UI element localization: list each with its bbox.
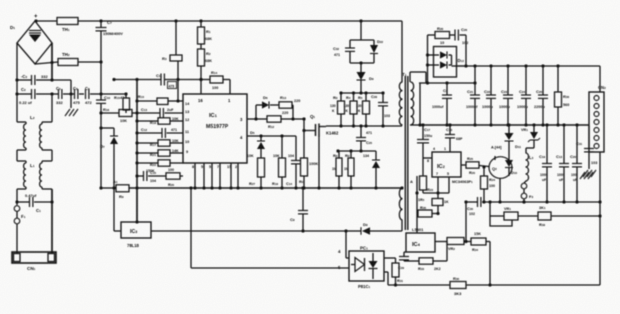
resistor R33 2K2 (404, 242, 447, 272)
diode D11 (505, 125, 522, 149)
wire secondary bottom lead (410, 124, 420, 126)
wire primary bus left (101, 187, 116, 189)
wire IC2 bottom row (415, 177, 449, 195)
capacitor C10 (96, 95, 111, 103)
resistor R22 150K (135, 160, 183, 173)
wire winding-bottom link (418, 81, 476, 126)
zener D4 (363, 151, 380, 190)
capacitor C7 150M/400V (96, 19, 124, 62)
wire D12 input column (426, 35, 429, 85)
wire feedback line (466, 200, 600, 203)
regulator IC2 MC34063 (423, 147, 473, 184)
optocoupler PC1 (349, 246, 384, 290)
dual diode D12 (428, 47, 467, 78)
wire primary bus (129, 186, 402, 189)
thermistor TH1 (57, 18, 78, 33)
fuse F1 (14, 206, 25, 224)
wire to PC1 pin4 (303, 229, 348, 232)
pin 1 (228, 98, 231, 103)
ground (C31) (583, 170, 596, 177)
pin 5 bottom (201, 165, 203, 169)
ground (secondary) (580, 172, 593, 179)
wire pin4 row (247, 134, 296, 137)
wire left rail to C1 row (15, 189, 18, 205)
wire R23 column (422, 158, 424, 176)
connector CN1 (12, 252, 56, 271)
wire bridge right rail (51, 43, 53, 80)
wire pin3 row (247, 117, 267, 120)
pot VR1 3K1 row (490, 202, 518, 226)
inductor L3 (526, 153, 534, 181)
capacitor C26 102 (450, 27, 469, 45)
pack A[44] label (491, 146, 502, 150)
resistor R24 100 (481, 165, 496, 203)
wire gate feeder (293, 117, 306, 158)
wire bottom bus right (466, 283, 600, 286)
thermistor TH2 (35, 52, 78, 66)
pin 13 (185, 110, 189, 114)
wire IC1 bottom pin stubs (193, 163, 239, 190)
resistor R19 10K (272, 136, 286, 190)
capacitor C23 1000u (499, 66, 513, 127)
resistor R5 130K (356, 93, 370, 128)
snubber loop C32 D22 (350, 19, 374, 64)
pin 15 bottom (227, 165, 231, 169)
pin 11 (185, 130, 189, 134)
zener D7 (99, 126, 118, 231)
capacitor C2 0.22uf (19, 87, 52, 105)
capacitor C22 1000u (482, 66, 496, 127)
wire PC1 right bottom (384, 272, 388, 285)
capacitor C5 332 (52, 86, 71, 105)
common-mode choke L2 (17, 80, 52, 150)
wire top bus (+ rail) (36, 20, 402, 22)
pin 3 (240, 117, 243, 122)
capacitor C12 471 (137, 128, 183, 138)
capacitor C3 332 (21, 74, 52, 85)
resistor R29 1K (418, 193, 449, 214)
diode D10 (505, 142, 517, 176)
capacitor C17 150u (417, 125, 432, 158)
resistor R12 220 (267, 111, 295, 129)
wire TH2 to C7 column (78, 60, 103, 63)
zener D5 (250, 130, 265, 158)
capacitor C14 104 (286, 136, 301, 190)
resistor R8b 1M (344, 151, 354, 190)
capacitor C1 0.47uf (17, 193, 52, 213)
resistor R38 3K1 (518, 206, 600, 227)
regulator IC3 78L18 (114, 188, 151, 248)
pot VR2 (435, 238, 464, 252)
capacitor C25b 2200u (534, 66, 548, 127)
wire second-row top rail (336, 149, 376, 152)
wire vertical feeder x137 (135, 78, 138, 222)
resistor R27 10K (247, 154, 265, 190)
transistor Q1 K1462 (302, 114, 339, 190)
wire F1 to CN1 (16, 224, 18, 253)
resistor R21 14K (135, 149, 183, 157)
capacitor C32 471 (333, 47, 355, 57)
wire bus drop to primary (401, 21, 403, 82)
wire row1 extension (52, 80, 73, 96)
resistor R15 47 (101, 92, 130, 113)
capacitor C13 (137, 108, 183, 118)
pin 6 bottom (209, 165, 211, 169)
bridge rectifier D1 (10, 21, 52, 64)
fuse F3 (521, 181, 533, 204)
wire aux bottom lead (400, 186, 403, 231)
resistor R1 68K (198, 19, 213, 44)
resistor R16 10K (101, 107, 137, 123)
capacitor C18 68P (445, 125, 463, 152)
capacitor C29 (398, 252, 409, 270)
zener VR1 (521, 125, 540, 153)
resistor R3 (162, 19, 182, 102)
capacitor C15 104 (135, 171, 166, 183)
resistor R6 100K (299, 158, 318, 190)
transformer aux winding (399, 188, 402, 220)
transformer primary winding (399, 82, 402, 125)
capacitor C20 100uF (570, 125, 582, 202)
wire right rail to CN1 (50, 189, 53, 253)
wire Q2 collector stub (494, 156, 496, 160)
capacitor C27 1000uf (432, 81, 452, 126)
capacitor C25 471 (356, 126, 372, 153)
resistor R35 (417, 206, 440, 217)
node + (bridge positive) (34, 14, 38, 23)
pin 7 bottom (217, 165, 219, 169)
pin 2 bottom (235, 165, 237, 169)
capacitor C31 103 (576, 125, 597, 169)
capacitor C21 1000uf (466, 64, 480, 126)
resistor R18 10K (135, 117, 183, 125)
diode D9 (357, 63, 374, 93)
resistor R28 10 (428, 26, 450, 45)
resistor R2 68K (198, 44, 213, 94)
wire D6 branch (256, 105, 293, 119)
capacitor C11 475 (112, 73, 202, 89)
resistor R14 100 (199, 70, 230, 94)
wire X-cap row 1 (15, 78, 53, 81)
resistor R8 130K (330, 93, 345, 128)
diode D6 (262, 95, 279, 109)
pin 10 (185, 140, 189, 144)
wire secondary top lead (410, 72, 426, 83)
diode D22 (370, 40, 383, 54)
transformer T1 core (402, 72, 408, 230)
wire secondary output bus (457, 64, 601, 67)
capacitor C8 475 (71, 86, 84, 105)
wire drain to transformer (326, 124, 402, 127)
shunt reg IC4 L5401 (406, 227, 435, 252)
resistor R17 10K (135, 139, 183, 147)
wire CN2 down rail (598, 152, 601, 285)
diode D8 (346, 222, 402, 235)
capacitor C8b (290, 186, 308, 231)
wire X-cap row 2 left (15, 92, 53, 95)
resistor R20 100 (166, 168, 183, 187)
wire IC3 output line (151, 229, 305, 232)
pin 16 (198, 98, 203, 103)
capacitor C13b 1000uF (556, 125, 569, 202)
capacitor C28 103 (371, 93, 390, 126)
resistor R13 220 (279, 95, 300, 108)
op-amp U IC1 M51977P box (183, 94, 247, 163)
ground (input filter) (65, 94, 78, 116)
transistor Q2 (489, 157, 512, 179)
wire R8/R4/R5 top rail (339, 91, 384, 94)
resistor R25 (461, 157, 489, 175)
resistor R9 (A1) (113, 179, 129, 199)
wire bridge left rail (16, 43, 18, 80)
wire bottom bus left (388, 284, 450, 286)
node A (410, 176, 417, 233)
capacitor C30 102 (467, 197, 481, 216)
connector CN2 (589, 66, 606, 152)
resistor R36 560 (555, 66, 570, 127)
pin 9 (186, 150, 188, 154)
pin 4 (240, 135, 243, 140)
resistor R34 15K (464, 232, 490, 285)
resistor R10 (135, 95, 183, 105)
wire snubber return (464, 35, 467, 68)
wire pin4 drop (346, 231, 349, 258)
pin 8 bottom (192, 165, 194, 169)
wire C7/C10 column (99, 62, 102, 190)
resistor R30 3K3 (450, 276, 466, 296)
resistor R4 130K (344, 93, 358, 128)
common-mode choke L1 (17, 150, 52, 189)
resistor R9b 1M (332, 151, 342, 190)
resistor R31 (392, 263, 403, 287)
wire A44 box to feedback line (498, 178, 501, 204)
pin 4 label (338, 249, 341, 254)
capacitor C19 1000uF (539, 125, 552, 202)
wire PC1 right top (384, 258, 396, 263)
wire feedback riser (464, 200, 467, 241)
pin 12 (185, 118, 189, 122)
pin 5 label (338, 265, 341, 270)
transformer secondary winding (411, 82, 414, 125)
pin 14 (185, 102, 190, 106)
resistor R23 (420, 176, 434, 193)
wire secondary ground bus (420, 123, 589, 126)
capacitor C9 472 (85, 86, 103, 105)
capacitor C24 1000u (517, 66, 531, 127)
wire pin5 feeder (191, 188, 349, 268)
